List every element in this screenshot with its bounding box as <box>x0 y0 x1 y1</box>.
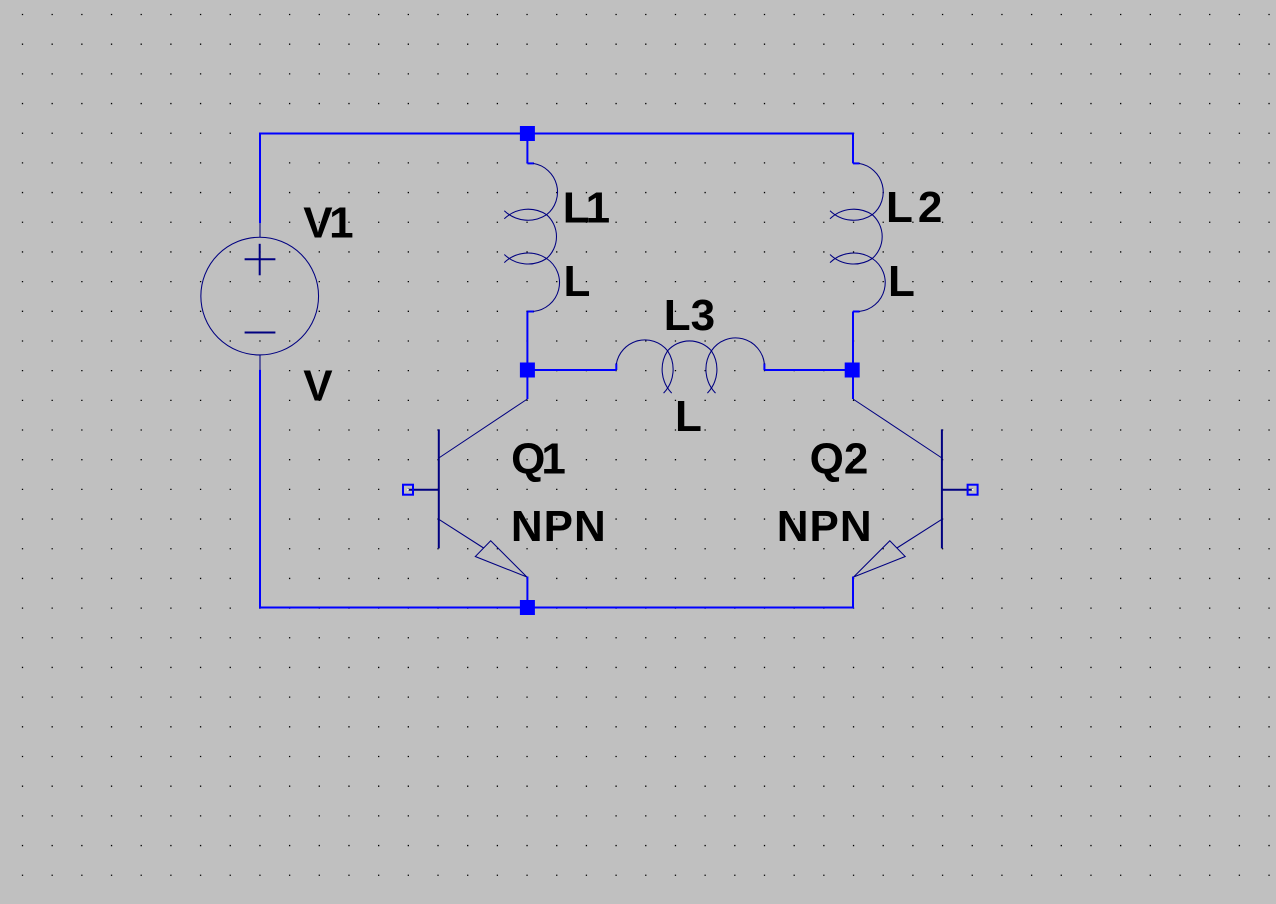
svg-text:L1: L1 <box>563 183 610 232</box>
wire node A to Q1 collector <box>526 370 528 399</box>
wire top rail <box>260 133 853 135</box>
wire jog L3 left <box>615 363 617 370</box>
V1 minus sign <box>245 332 276 334</box>
svg-text:V1: V1 <box>303 199 353 248</box>
Q1 base bar <box>438 429 440 548</box>
junction node A <box>520 363 535 378</box>
Q2 emitter arrow <box>854 541 906 577</box>
wire L3 to node B <box>764 369 852 371</box>
wire L2 to node B <box>852 312 854 371</box>
svg-text:V: V <box>303 361 333 410</box>
svg-text:NPN: NPN <box>511 502 607 551</box>
wire L1 to node A <box>526 312 528 371</box>
svg-text:L2: L2 <box>886 183 947 232</box>
wire jog L1 bottom <box>527 311 534 313</box>
Q1 emitter arrow <box>475 541 527 577</box>
svg-text:L3: L3 <box>664 291 715 340</box>
wire node B to Q2 collector <box>852 370 854 399</box>
inductor L2 coil <box>830 163 885 311</box>
voltage source V1 circle <box>201 237 319 355</box>
wire jog L2 bottom <box>853 311 860 313</box>
wire jog L1 top <box>527 162 534 164</box>
wire node T to L1 <box>526 134 528 164</box>
V1 bottom lead <box>259 355 261 370</box>
svg-text:L: L <box>675 392 702 441</box>
junction node B <box>845 363 860 378</box>
transistor Q2 <box>853 399 973 577</box>
Q2 base lead <box>942 489 973 491</box>
V1 plus sign <box>245 244 276 275</box>
V1 top lead <box>259 223 261 237</box>
junction node E <box>520 600 535 615</box>
Q1 emitter line <box>439 519 484 548</box>
wire jog L2 top <box>853 162 860 164</box>
Q2 base bar <box>941 429 943 548</box>
inductor L1 coil <box>504 163 559 311</box>
svg-text:L: L <box>888 257 915 306</box>
svg-text:Q1: Q1 <box>511 435 565 484</box>
Q2 emitter line <box>897 519 942 548</box>
wire left rail upper <box>259 133 261 224</box>
svg-text:NPN: NPN <box>777 502 873 551</box>
wire Q2 emitter to bottom rail <box>852 577 854 609</box>
Q1 base pin square <box>403 485 413 495</box>
wire jog L3 right <box>763 363 765 370</box>
junction node T <box>520 126 535 141</box>
Q2 base pin square <box>968 485 978 495</box>
wire bottom rail <box>259 607 853 609</box>
Q2 collector line <box>853 399 942 458</box>
transistor Q1 <box>408 399 527 577</box>
wire left rail lower <box>259 370 261 609</box>
svg-text:Q2: Q2 <box>810 435 869 484</box>
svg-text:L: L <box>564 257 591 306</box>
wire node A to L3 <box>527 369 616 371</box>
Q1 collector line <box>439 399 528 458</box>
inductor L3 coil <box>616 338 764 393</box>
wire right drop to L2 <box>852 133 854 164</box>
Q1 base lead <box>408 489 439 491</box>
wire Q1 emitter to bottom node <box>526 577 528 608</box>
